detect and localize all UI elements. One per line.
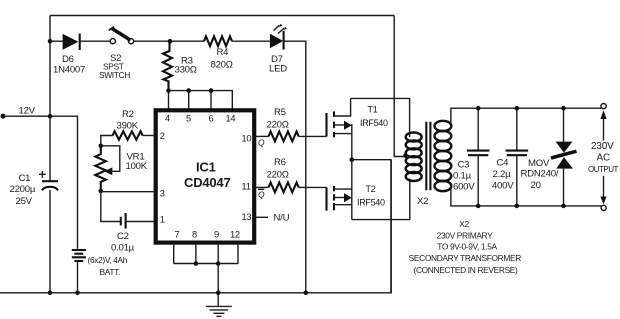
svg-text:X2: X2 [417, 196, 428, 207]
svg-text:8: 8 [192, 230, 197, 240]
svg-text:C3: C3 [458, 160, 470, 171]
wire battery to bottom rail [77, 262, 79, 293]
wire T1 source to ground rail [352, 160, 391, 293]
svg-text:400V: 400V [492, 181, 514, 192]
node 12V junction [48, 114, 53, 119]
svg-text:(6x2)V, 4Ah: (6x2)V, 4Ah [88, 255, 128, 265]
transistor T2 IRF540 [327, 160, 352, 220]
node C3 top [476, 106, 481, 111]
svg-text:3: 3 [160, 189, 165, 199]
wire ground line [217, 264, 219, 306]
svg-text:BATT.: BATT. [100, 267, 120, 277]
varistor MOV RDN240/20 [551, 108, 577, 206]
ground [206, 306, 232, 316]
svg-text:11: 11 [242, 182, 251, 192]
svg-text:LED: LED [269, 63, 287, 74]
svg-text:TO 9V-0-9V, 1.5A: TO 9V-0-9V, 1.5A [437, 241, 497, 251]
svg-text:4: 4 [165, 114, 170, 124]
terminal output bottom [601, 205, 606, 210]
svg-text:220Ω: 220Ω [267, 169, 289, 180]
node MOV top [561, 106, 566, 111]
svg-text:0.01µ: 0.01µ [111, 242, 135, 253]
node ground at bottom rail [216, 291, 221, 296]
transformer X2 primary coil [406, 133, 422, 182]
node bus pin4 [166, 88, 171, 93]
node R3 top [168, 39, 173, 44]
svg-text:T1: T1 [368, 105, 378, 115]
wire S2 to R3 node [134, 40, 204, 42]
pin 6 stub [210, 91, 212, 109]
svg-text:230V: 230V [591, 141, 614, 152]
output bottom arrow [603, 176, 605, 197]
wire secondary top lead [451, 108, 601, 123]
svg-text:IC1: IC1 [196, 159, 216, 174]
svg-text:230V PRIMARY: 230V PRIMARY [437, 230, 493, 240]
svg-text:1: 1 [160, 215, 165, 225]
svg-text:MOV: MOV [528, 158, 550, 169]
wire 12V feed to centre tap [394, 16, 405, 157]
terminal 12V input [1, 114, 6, 119]
capacitor C2 0.01u [121, 213, 154, 229]
svg-text:R4: R4 [217, 47, 230, 58]
node centre tap [403, 153, 408, 158]
node D6 anode junction [48, 39, 53, 44]
pin 9 stub [217, 245, 219, 264]
transistor T1 IRF540 [327, 98, 352, 159]
transformer X2 secondary coil [435, 121, 452, 191]
svg-text:N/U: N/U [274, 213, 290, 224]
terminal output top [601, 104, 606, 109]
svg-text:R2: R2 [122, 109, 134, 120]
svg-text:10: 10 [242, 133, 252, 143]
wire T1 drain to primary top [351, 98, 410, 137]
svg-text:6: 6 [209, 114, 214, 124]
svg-text:2200µ: 2200µ [10, 184, 36, 195]
wire T2 to primary bottom [352, 179, 410, 220]
svg-text:C2: C2 [117, 231, 129, 242]
wire bottom pin bus [174, 263, 238, 265]
switch S2 [109, 27, 134, 44]
svg-text:7: 7 [175, 230, 180, 240]
wire left rail lower [49, 190, 51, 293]
svg-text:OUTPUT: OUTPUT [588, 165, 619, 174]
resistor R3 330ohm [163, 41, 172, 90]
diode D6 [50, 34, 110, 51]
wire pin 13 stub [254, 216, 268, 218]
pin 12 stub [237, 245, 239, 264]
wire top rail [50, 15, 394, 17]
svg-text:R6: R6 [274, 157, 286, 168]
node LED column at bottom rail [304, 291, 309, 296]
wire bottom rail [0, 160, 391, 293]
wire top pin bus [169, 91, 233, 109]
wire 12V input [3, 116, 78, 249]
capacitor C3 0.1u 600V [467, 108, 490, 206]
wire VR1 to C2 [101, 191, 120, 222]
svg-text:T2: T2 [366, 184, 376, 194]
svg-text:C4: C4 [497, 158, 510, 169]
node bus pin8 [194, 261, 199, 266]
svg-text:CD4047: CD4047 [184, 175, 231, 190]
node bus pin9 [216, 261, 221, 266]
svg-text:0.1µ: 0.1µ [453, 171, 472, 182]
svg-text:1N4007: 1N4007 [53, 64, 85, 75]
svg-text:IRF540: IRF540 [360, 118, 388, 128]
svg-text:(CONNECTED IN REVERSE): (CONNECTED IN REVERSE) [414, 265, 519, 275]
node VR1 top junction [99, 144, 104, 149]
svg-text:25V: 25V [16, 196, 33, 207]
capacitor C4 2.2u 400V [506, 108, 528, 206]
wire D7 to LED column [284, 41, 306, 293]
node T1 source junction [350, 157, 355, 162]
svg-text:20: 20 [531, 180, 541, 191]
svg-text:14: 14 [226, 114, 236, 124]
svg-text:C1: C1 [19, 173, 31, 184]
svg-text:SWITCH: SWITCH [99, 70, 130, 80]
svg-text:AC: AC [597, 153, 611, 164]
wire R4 to D7 [232, 40, 270, 42]
op-amp IC1 CD4047 box [156, 110, 255, 242]
resistor R4 820ohm [204, 36, 232, 46]
LED D7 [270, 24, 287, 50]
node C3 bottom [476, 204, 481, 209]
potentiometer VR1 100K [95, 146, 120, 191]
resistor R6 220ohm [254, 183, 326, 193]
output top arrow [600, 110, 606, 119]
svg-text:5: 5 [186, 114, 191, 124]
resistor R2 390K [101, 131, 154, 146]
capacitor C1 [39, 171, 58, 190]
svg-text:X2: X2 [459, 219, 469, 229]
svg-text:13: 13 [242, 212, 252, 222]
pin 8 stub [195, 245, 197, 264]
svg-text:Q: Q [258, 189, 265, 199]
svg-text:Q: Q [258, 137, 265, 147]
wire secondary bottom lead [451, 189, 601, 206]
svg-text:12V: 12V [19, 106, 36, 117]
node C4 top [515, 106, 520, 111]
node battery bottom [75, 291, 80, 296]
svg-text:RDN240/: RDN240/ [521, 169, 559, 180]
svg-text:330Ω: 330Ω [175, 65, 197, 76]
svg-text:820Ω: 820Ω [211, 60, 233, 71]
pin 4 stub [168, 91, 170, 109]
resistor R5 220ohm [254, 132, 326, 142]
svg-text:390K: 390K [117, 120, 139, 131]
node MOV bottom [561, 204, 566, 209]
node VR1 bottom junction [99, 189, 104, 194]
svg-text:R5: R5 [274, 107, 286, 118]
svg-text:600V: 600V [453, 182, 475, 193]
pin 7 stub [173, 245, 175, 264]
wire pin 3 [101, 191, 154, 193]
svg-text:12: 12 [230, 230, 240, 240]
transformer X2 core [426, 122, 430, 191]
svg-text:220Ω: 220Ω [267, 119, 289, 130]
node left rail at bottom rail [48, 291, 53, 296]
node bus pin5 [186, 88, 191, 93]
svg-text:IRF540: IRF540 [357, 198, 385, 208]
svg-text:100K: 100K [126, 161, 148, 172]
svg-text:9: 9 [214, 230, 219, 240]
svg-text:2.2µ: 2.2µ [493, 169, 512, 180]
node C4 bottom [515, 204, 520, 209]
svg-text:SECONDARY TRANSFORMER: SECONDARY TRANSFORMER [409, 253, 522, 263]
svg-text:2: 2 [160, 131, 165, 141]
wire left rail [49, 16, 51, 182]
pin 5 stub [188, 91, 190, 109]
node bus pin6 [209, 88, 214, 93]
battery (6x2)V 4Ah [72, 250, 86, 261]
